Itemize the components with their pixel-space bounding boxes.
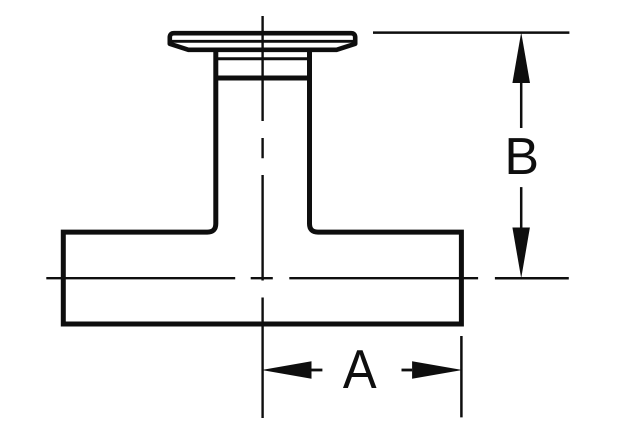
tee body and neck outline (63, 50, 461, 324)
ferrule groove line (218, 57, 307, 60)
dimension A left arrow (262, 361, 312, 379)
dimension B down arrow (512, 228, 530, 279)
ferrule flange outline (170, 33, 355, 50)
dimension A right extension line (460, 336, 463, 417)
dimension B bottom extension line (495, 277, 569, 280)
ferrule face inner line (172, 40, 354, 43)
dimension B up arrow (512, 32, 530, 83)
dimension A right arrow (412, 361, 462, 379)
svg-text:A: A (343, 339, 377, 400)
svg-text:B: B (504, 128, 539, 186)
dimension B top extension line (373, 31, 569, 34)
weld bead line (218, 76, 307, 81)
horizontal centerline (46, 277, 478, 279)
vertical centerline (261, 16, 263, 418)
